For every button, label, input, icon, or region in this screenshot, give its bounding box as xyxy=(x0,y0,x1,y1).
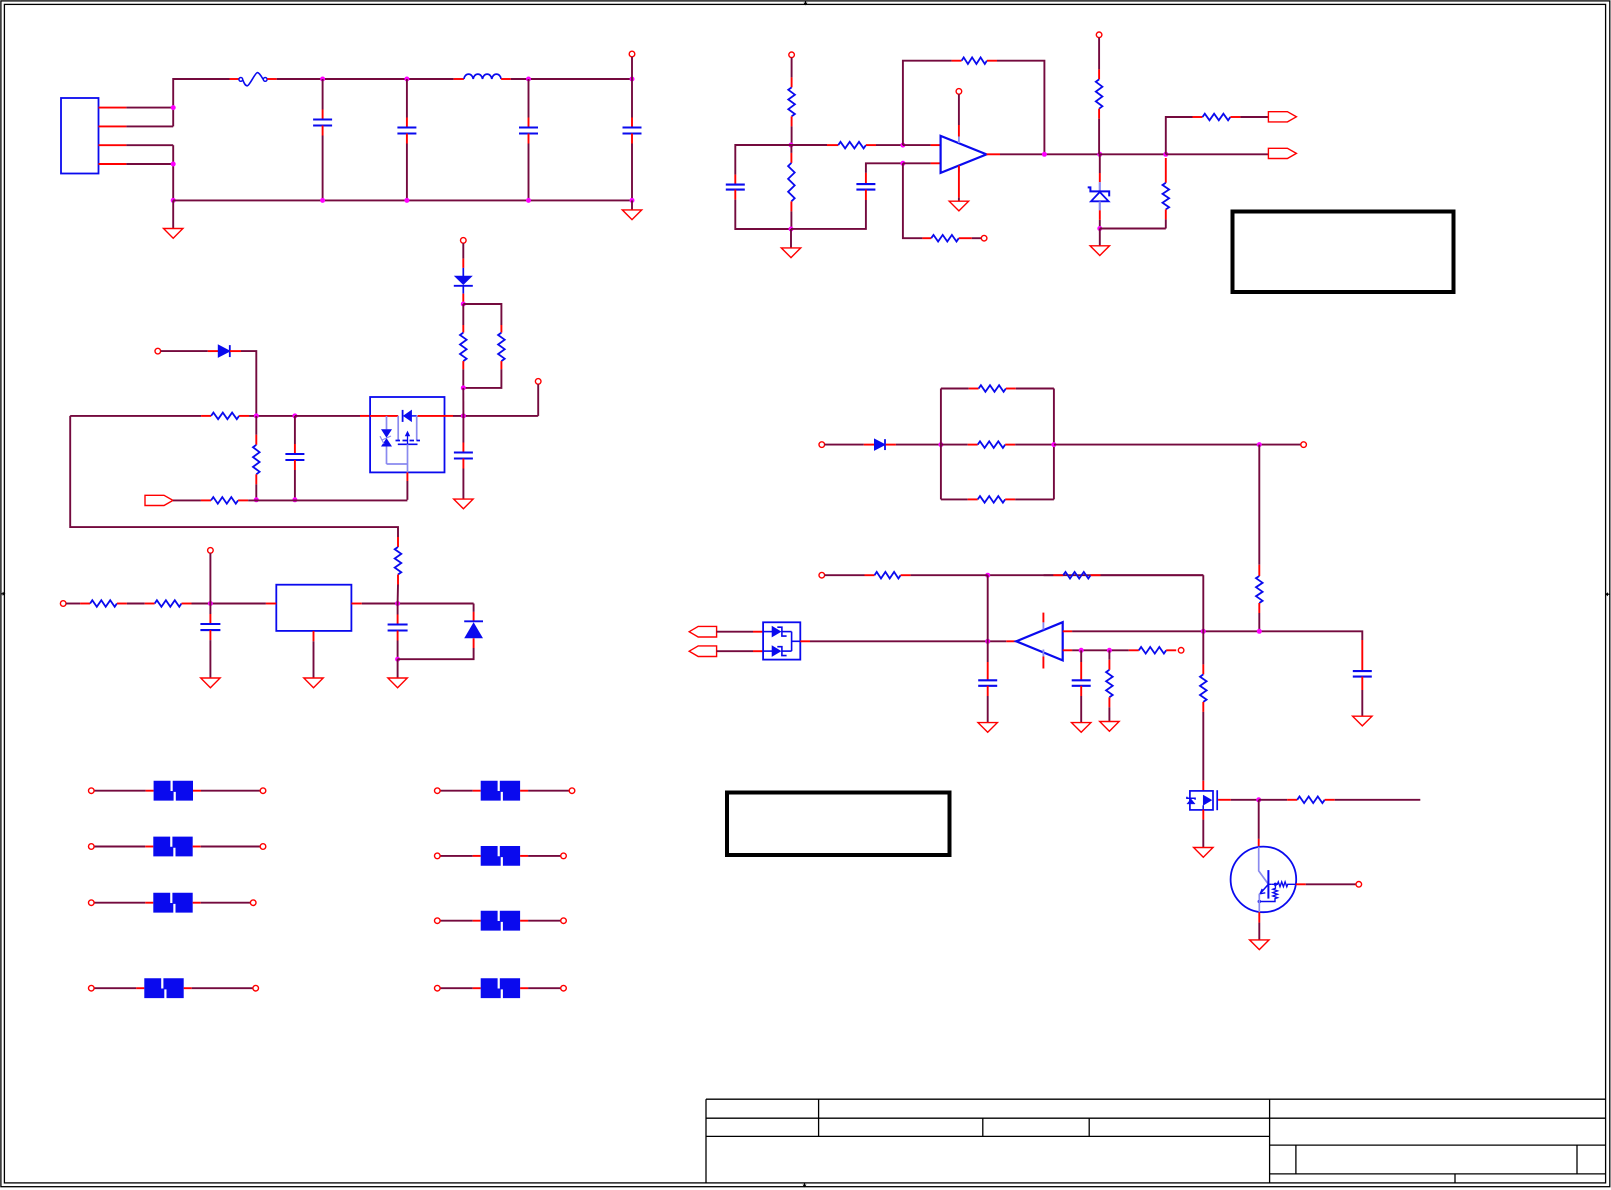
wire xyxy=(791,58,793,78)
ground xyxy=(164,229,183,239)
wire xyxy=(988,574,1204,576)
node junction xyxy=(985,573,990,578)
resistor R25 xyxy=(1200,664,1207,712)
ground xyxy=(454,499,473,509)
optocoupler U4 xyxy=(763,622,801,659)
transistor Q1 xyxy=(1231,847,1297,913)
wire xyxy=(631,79,633,118)
wire xyxy=(1053,389,1055,500)
pin 4 of U2 xyxy=(445,415,454,417)
capacitor C7 xyxy=(285,416,304,500)
border zone tick top xyxy=(804,1,808,6)
wire xyxy=(173,499,201,501)
wire xyxy=(440,920,473,922)
capacitor C8 xyxy=(454,416,473,469)
pin 1 of U4 xyxy=(753,631,763,633)
node junction xyxy=(1051,442,1056,447)
wire xyxy=(1258,923,1260,940)
resistor R2 xyxy=(253,416,260,500)
terminal post xyxy=(981,235,987,241)
ground xyxy=(949,201,968,211)
wire xyxy=(127,603,145,605)
wire xyxy=(537,384,539,416)
wire xyxy=(397,585,399,604)
wire xyxy=(790,229,792,248)
node junction xyxy=(395,657,400,662)
wire xyxy=(1108,707,1110,721)
wire xyxy=(1166,117,1193,154)
wire xyxy=(1202,631,1204,664)
border zone tick right xyxy=(1605,592,1610,596)
node junction xyxy=(1257,442,1262,447)
wire xyxy=(717,631,753,633)
capacitor C9 xyxy=(200,604,220,641)
fuse F3 xyxy=(145,837,200,857)
wire xyxy=(173,79,229,126)
capacitor C4 xyxy=(623,118,642,144)
terminal post xyxy=(561,853,567,859)
resistor R26 xyxy=(1287,797,1335,804)
wire xyxy=(528,855,561,857)
node junction xyxy=(1097,226,1102,231)
ground xyxy=(304,678,323,688)
node junction xyxy=(171,105,176,110)
wire xyxy=(528,987,561,989)
power pin of U1 lower xyxy=(958,166,960,202)
terminal post xyxy=(629,51,635,57)
wire xyxy=(172,145,174,200)
mosfet Q2 xyxy=(1187,790,1217,810)
resistor R7 xyxy=(827,142,876,149)
node junction xyxy=(900,143,905,148)
terminal post xyxy=(435,788,441,794)
wire xyxy=(1099,154,1101,173)
wire xyxy=(406,481,408,500)
ground xyxy=(781,248,800,258)
ground xyxy=(1090,246,1109,256)
node junction xyxy=(404,198,409,203)
wire xyxy=(70,416,398,537)
wire xyxy=(940,389,942,500)
diode D3 xyxy=(864,439,896,450)
capacitor C10 xyxy=(388,604,408,641)
node junction xyxy=(526,198,531,203)
fuse F6 xyxy=(473,781,528,801)
terminal post xyxy=(435,985,441,991)
node junction xyxy=(208,601,213,606)
terminal post xyxy=(89,900,95,906)
pin 1 of J1 xyxy=(99,107,127,109)
capacitor C1 xyxy=(313,110,332,136)
fuse F4 xyxy=(145,893,200,913)
terminal post xyxy=(208,548,214,554)
terminal post xyxy=(250,900,256,906)
wire xyxy=(528,790,569,792)
wire xyxy=(528,920,561,922)
node junction xyxy=(461,385,466,390)
wire xyxy=(440,855,473,857)
wire xyxy=(462,369,464,388)
resistor R5 xyxy=(788,77,795,126)
wire xyxy=(866,163,876,173)
wire xyxy=(631,200,633,210)
wire xyxy=(94,846,145,848)
node junction xyxy=(320,198,325,203)
wire xyxy=(313,641,315,678)
port CTRL xyxy=(145,495,173,505)
pin 3 of J1 xyxy=(99,144,127,146)
zener diode D5 xyxy=(1088,173,1110,220)
fuse F8 xyxy=(473,911,528,931)
port IN2 xyxy=(689,646,716,657)
terminal post xyxy=(569,788,575,794)
wire xyxy=(277,78,454,80)
wire xyxy=(462,388,464,416)
pin in of U3 xyxy=(266,603,276,605)
wire xyxy=(1306,883,1356,885)
wire xyxy=(126,125,173,127)
wire xyxy=(903,61,952,145)
wire xyxy=(876,144,903,146)
wire xyxy=(462,304,464,325)
terminal post xyxy=(155,348,161,354)
wire xyxy=(209,640,211,678)
node junction xyxy=(526,77,531,82)
node junction xyxy=(900,161,905,166)
wire xyxy=(1202,575,1204,631)
wire xyxy=(903,162,931,164)
wire xyxy=(1258,613,1260,631)
capacitor C2 xyxy=(397,118,416,144)
wire xyxy=(1165,219,1167,228)
wire xyxy=(201,846,261,848)
ground xyxy=(201,678,220,688)
wire xyxy=(1202,820,1204,848)
wire xyxy=(192,603,266,605)
wire xyxy=(911,574,988,576)
resistor R21 xyxy=(865,572,911,579)
wire xyxy=(790,145,792,229)
resistor R9 xyxy=(922,235,971,242)
wire xyxy=(241,351,256,416)
pin + of U5 xyxy=(1006,640,1016,642)
wire xyxy=(255,499,257,502)
fuse F2 xyxy=(146,781,201,801)
ground xyxy=(1072,723,1091,733)
ground xyxy=(1100,722,1119,732)
wire xyxy=(903,163,923,238)
pin s of Q2 xyxy=(1202,810,1204,820)
pin a of U5 xyxy=(1063,630,1072,632)
node junction xyxy=(292,497,297,502)
node junction xyxy=(630,198,635,203)
ground xyxy=(1353,716,1372,726)
fuse F5 xyxy=(136,978,191,998)
wire xyxy=(1361,690,1363,716)
resistor R1 xyxy=(201,413,249,420)
wire xyxy=(735,200,791,229)
wire xyxy=(941,498,968,500)
resistor R11 xyxy=(1096,69,1103,118)
resistor R3 xyxy=(498,325,505,369)
wire xyxy=(322,79,324,110)
wire xyxy=(463,369,501,388)
pin 2 of J1 xyxy=(99,125,127,127)
pin d of Q2 xyxy=(1202,781,1204,791)
note box xyxy=(1233,212,1454,293)
pin g of Q2 xyxy=(1218,799,1231,801)
pin c of Q1 xyxy=(1258,839,1260,847)
pin out of U3 xyxy=(351,603,361,605)
node junction xyxy=(171,162,176,167)
resistor R17 xyxy=(1256,565,1263,613)
wire xyxy=(94,790,146,792)
wire xyxy=(1054,444,1301,446)
node junction xyxy=(461,413,466,418)
terminal post xyxy=(260,844,266,850)
node junction xyxy=(395,601,400,606)
wire xyxy=(941,444,968,446)
wire xyxy=(397,641,399,660)
wire xyxy=(295,415,360,417)
pin gnd of U3 xyxy=(313,631,315,641)
terminal post xyxy=(956,89,962,95)
capacitor C3 xyxy=(519,118,538,144)
power pin of U1 xyxy=(958,94,960,143)
wire xyxy=(1080,696,1082,723)
wire xyxy=(825,444,864,446)
pin out of U1 xyxy=(987,153,1001,155)
wire xyxy=(161,350,208,352)
wire xyxy=(987,696,989,723)
wire xyxy=(791,144,827,146)
wire xyxy=(1202,712,1204,781)
wire xyxy=(825,574,865,576)
ground xyxy=(388,678,407,688)
wire xyxy=(397,659,399,678)
terminal post xyxy=(435,853,441,859)
wire xyxy=(791,126,793,145)
wire xyxy=(997,61,1044,155)
pin b of U5 xyxy=(1063,649,1072,651)
wire xyxy=(1072,631,1362,640)
resistor R15 xyxy=(968,441,1016,448)
wire xyxy=(406,79,408,118)
wire xyxy=(528,79,530,118)
wire xyxy=(791,200,866,229)
pin 3 of U4 xyxy=(800,640,810,642)
terminal post xyxy=(789,52,795,58)
wire xyxy=(70,415,201,417)
node junction xyxy=(292,413,297,418)
wire xyxy=(631,57,633,79)
connector J1 xyxy=(61,98,99,174)
wire xyxy=(972,237,982,239)
port OUT2 xyxy=(1268,148,1296,158)
resistor R10 xyxy=(1193,114,1241,121)
wire xyxy=(1099,229,1101,246)
pin 3 of U2 xyxy=(406,472,408,481)
wire xyxy=(248,499,407,501)
wire xyxy=(322,136,324,201)
wire xyxy=(1335,799,1421,801)
diode D4 xyxy=(464,604,483,649)
wire xyxy=(66,603,80,605)
port IN1 xyxy=(689,626,716,637)
wire xyxy=(1100,153,1166,155)
comparator U5 xyxy=(1016,622,1062,660)
terminal post xyxy=(1178,648,1184,654)
wire xyxy=(1099,220,1101,229)
wire xyxy=(1098,119,1100,155)
wire xyxy=(398,648,474,659)
capacitor C11 xyxy=(1353,640,1372,690)
resistor R6 xyxy=(788,153,795,212)
wire xyxy=(1258,445,1260,565)
wire xyxy=(1166,153,1269,155)
note box xyxy=(727,793,950,856)
node junction xyxy=(985,639,990,644)
node junction xyxy=(1256,797,1261,802)
ground xyxy=(1250,940,1269,950)
wire xyxy=(941,388,969,390)
node junction xyxy=(461,302,466,307)
resistor R16 xyxy=(968,496,1016,503)
wire xyxy=(173,199,632,201)
pin 2 of U4 xyxy=(753,650,763,652)
wire xyxy=(94,902,145,904)
resistor R8 xyxy=(952,57,997,64)
title block xyxy=(706,1099,1606,1183)
wire xyxy=(440,790,473,792)
diode D2 xyxy=(454,259,473,304)
terminal post xyxy=(89,844,95,850)
wire xyxy=(249,415,295,417)
resistor R20 xyxy=(395,537,402,585)
wire xyxy=(903,144,931,146)
wire xyxy=(126,144,173,146)
fuse F7 xyxy=(473,846,528,866)
wire xyxy=(1072,649,1129,651)
ground xyxy=(622,210,641,220)
wire xyxy=(528,144,530,201)
wire xyxy=(201,790,260,792)
border zone tick bottom xyxy=(803,1183,807,1188)
wire xyxy=(717,650,753,652)
wire xyxy=(987,575,989,652)
resistor R4 xyxy=(460,325,467,369)
capacitor C5 xyxy=(726,175,745,200)
terminal post xyxy=(89,985,95,991)
wire xyxy=(735,145,791,175)
wire xyxy=(810,640,1006,642)
resistor R13 xyxy=(201,497,248,504)
power pin of U5 lower xyxy=(1042,650,1044,669)
terminal post xyxy=(561,918,567,924)
wire xyxy=(1100,228,1166,230)
resistor R24 xyxy=(1106,650,1113,707)
terminal post xyxy=(461,238,467,244)
wire xyxy=(126,163,173,165)
wire xyxy=(209,553,211,603)
pin - of U1 xyxy=(931,162,941,164)
diode D1 xyxy=(208,345,241,357)
terminal post xyxy=(535,379,541,385)
fuse F9 xyxy=(473,978,528,998)
port OUT1 xyxy=(1268,112,1296,122)
wire xyxy=(94,987,136,989)
wire xyxy=(1015,498,1054,500)
ground xyxy=(978,723,997,733)
capacitor C13 xyxy=(1072,650,1091,696)
node junction xyxy=(1201,629,1206,634)
wire xyxy=(1231,799,1259,801)
node junction xyxy=(1097,152,1102,157)
regulator U3 xyxy=(276,585,351,631)
fuse F1 xyxy=(230,73,277,86)
node junction xyxy=(789,143,794,148)
resistor R14 xyxy=(969,385,1016,392)
node junction xyxy=(1079,648,1084,653)
node junction xyxy=(1042,152,1047,157)
terminal post xyxy=(253,985,259,991)
wire xyxy=(462,469,464,500)
node junction xyxy=(789,227,794,232)
resistor R22 xyxy=(1053,572,1100,579)
resistor R19 xyxy=(145,600,192,607)
wire xyxy=(406,144,408,201)
terminal post xyxy=(89,788,95,794)
ground xyxy=(1194,848,1213,858)
wire xyxy=(1016,388,1054,390)
resistor R23 xyxy=(1129,647,1176,654)
node junction xyxy=(938,442,943,447)
node junction xyxy=(1163,152,1168,157)
wire xyxy=(1015,444,1054,446)
photoMOS U2 xyxy=(370,397,444,472)
wire xyxy=(1000,153,1100,155)
pin b of Q1 xyxy=(1296,883,1306,885)
node junction xyxy=(254,497,259,502)
resistor R12 xyxy=(1163,158,1170,219)
wire xyxy=(453,415,538,417)
wire xyxy=(440,987,473,989)
pin e of Q1 xyxy=(1258,912,1260,922)
node junction xyxy=(171,198,176,203)
terminal post xyxy=(1096,32,1102,38)
node junction xyxy=(1257,629,1262,634)
wire xyxy=(631,144,633,201)
wire xyxy=(201,902,251,904)
wire xyxy=(1098,38,1100,70)
wire xyxy=(462,243,464,258)
node junction xyxy=(630,77,635,82)
terminal post xyxy=(60,601,66,607)
capacitor C6 xyxy=(856,173,875,200)
op-amp U1 xyxy=(941,136,987,173)
node junction xyxy=(254,413,259,418)
capacitor C12 xyxy=(978,652,997,696)
terminal post xyxy=(819,442,825,448)
terminal post xyxy=(819,572,825,578)
node junction xyxy=(1107,648,1112,653)
wire xyxy=(1259,799,1288,801)
pin + of U1 xyxy=(931,144,941,146)
node junction xyxy=(320,77,325,82)
border zone tick left xyxy=(1,592,6,596)
power pin of U5 xyxy=(1042,613,1044,630)
wire xyxy=(511,78,632,80)
